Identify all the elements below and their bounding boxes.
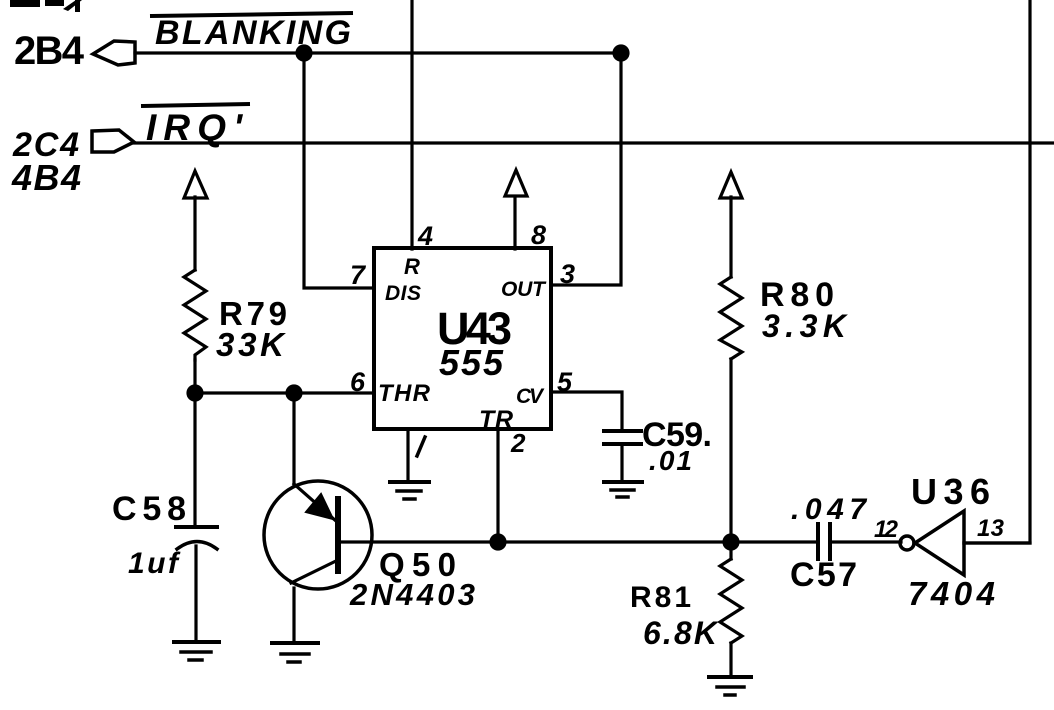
junction THR-R79-C58 bbox=[188, 386, 202, 400]
svg-text:4: 4 bbox=[417, 221, 433, 251]
transistor Q50 collector bbox=[291, 560, 338, 583]
resistor R81 bbox=[720, 559, 742, 643]
inverter U36 output bubble bbox=[900, 536, 914, 550]
junction TR-base bbox=[491, 535, 505, 549]
ground below C58 bbox=[174, 642, 219, 660]
ground below U43 pin 1 bbox=[390, 482, 429, 499]
svg-text:4B4: 4B4 bbox=[11, 157, 81, 198]
capacitor C58 bbox=[176, 527, 217, 549]
capacitor C57 bbox=[818, 524, 830, 559]
svg-text:C57: C57 bbox=[790, 556, 857, 594]
svg-text:2N4403: 2N4403 bbox=[349, 577, 475, 612]
power arrow above pin 8 bbox=[505, 170, 527, 196]
wire right vertical to U36 pin 13 bbox=[964, 0, 1030, 543]
junction BLANKING-DIS bbox=[297, 46, 311, 60]
capacitor C59 bbox=[604, 431, 641, 444]
svg-text:R81: R81 bbox=[630, 581, 691, 614]
svg-text:1uf: 1uf bbox=[128, 547, 181, 580]
wire node to R81 bbox=[729, 542, 732, 559]
svg-text:OUT: OUT bbox=[501, 278, 547, 301]
overline IRQ' bbox=[143, 104, 248, 106]
wire THR node to Q50 emitter bbox=[292, 393, 295, 486]
junction R80-R81 bbox=[724, 535, 738, 549]
ground below Q50 collector bbox=[272, 643, 318, 662]
wire THR node to U43 pin 6 bbox=[195, 391, 374, 394]
svg-text:BLANKING: BLANKING bbox=[155, 14, 351, 52]
svg-text:5: 5 bbox=[557, 367, 573, 397]
resistor R80 bbox=[720, 277, 742, 359]
wire U36 output to right vertical bbox=[964, 541, 1030, 544]
svg-text:6.8K: 6.8K bbox=[643, 615, 720, 651]
wire R80 to node bbox=[729, 359, 732, 542]
wire Q50 base to C57 bbox=[339, 540, 818, 543]
wire C58 to ground bbox=[194, 546, 197, 641]
wire U43 pin 3 to BLANKING bbox=[552, 53, 621, 285]
wire R79 to THR node bbox=[193, 360, 196, 393]
wire U43 pin 1 to ground bbox=[406, 429, 409, 481]
op-amp U43 body bbox=[374, 248, 551, 429]
svg-text:2: 2 bbox=[510, 428, 526, 458]
junction BLANKING-OUT bbox=[614, 46, 628, 60]
wire C59 to ground bbox=[620, 444, 623, 481]
wire VCC to R79 bbox=[193, 197, 196, 270]
junction THR-emitter bbox=[287, 386, 301, 400]
svg-text:CV: CV bbox=[516, 385, 545, 408]
wire C57 to U36 pin 12 bbox=[830, 540, 901, 543]
connector tag 2B4 bbox=[93, 41, 135, 65]
transistor Q50 emitter arrow bbox=[306, 494, 333, 519]
svg-text:R: R bbox=[404, 254, 420, 279]
overline BLANKING bbox=[152, 13, 351, 16]
svg-text:U36: U36 bbox=[911, 471, 990, 512]
svg-text:12: 12 bbox=[874, 516, 899, 543]
svg-text:8: 8 bbox=[531, 220, 546, 250]
svg-text:2B4: 2B4 bbox=[14, 29, 85, 73]
svg-text:555: 555 bbox=[439, 342, 504, 383]
svg-text:13: 13 bbox=[977, 515, 1005, 542]
wire R81 to ground bbox=[729, 643, 732, 675]
svg-text:C58: C58 bbox=[112, 490, 186, 528]
wire BLANKING net horizontal bbox=[135, 51, 621, 54]
svg-text:33K: 33K bbox=[216, 326, 286, 363]
inverter U36 triangle bbox=[915, 511, 964, 575]
connector tag 2C4 4B4 bbox=[92, 130, 134, 152]
wire U43 pin 5 to C59 bbox=[552, 392, 622, 430]
pin 1 label slash bbox=[417, 437, 425, 456]
svg-text:TR: TR bbox=[479, 406, 513, 434]
ground below C59 bbox=[604, 482, 642, 497]
transistor Q2 circle bbox=[264, 481, 372, 589]
resistor R79 bbox=[184, 270, 206, 360]
svg-text:DIS: DIS bbox=[385, 282, 421, 305]
transistor Q50 emitter bbox=[294, 484, 336, 521]
wire IRQ' net horizontal bbox=[134, 141, 1054, 144]
wire THR node to C58 bbox=[193, 393, 196, 526]
label top cut text bbox=[10, 0, 82, 12]
svg-text:7: 7 bbox=[350, 260, 367, 290]
svg-text:3: 3 bbox=[560, 259, 575, 289]
svg-text:THR: THR bbox=[378, 380, 431, 407]
wire Q50 collector to ground bbox=[292, 588, 295, 641]
transistor Q50 base bar bbox=[335, 499, 341, 571]
ground below R81 bbox=[709, 677, 751, 695]
power arrow above R79 bbox=[184, 171, 207, 198]
wire top to U43 pin 4 bbox=[410, 0, 413, 249]
wire U43 pin 2 to base node bbox=[496, 429, 499, 542]
svg-text:7404: 7404 bbox=[908, 575, 995, 612]
svg-text:3.3K: 3.3K bbox=[762, 308, 849, 344]
wire VCC to U43 pin 8 bbox=[513, 197, 516, 249]
svg-text:.01: .01 bbox=[649, 445, 692, 476]
power arrow above R80 bbox=[720, 172, 742, 198]
svg-text:.047: .047 bbox=[791, 493, 867, 526]
wire VCC to R80 bbox=[729, 197, 732, 277]
svg-text:6: 6 bbox=[350, 367, 366, 397]
wire BLANKING to U43 pin 7 bbox=[304, 53, 374, 288]
